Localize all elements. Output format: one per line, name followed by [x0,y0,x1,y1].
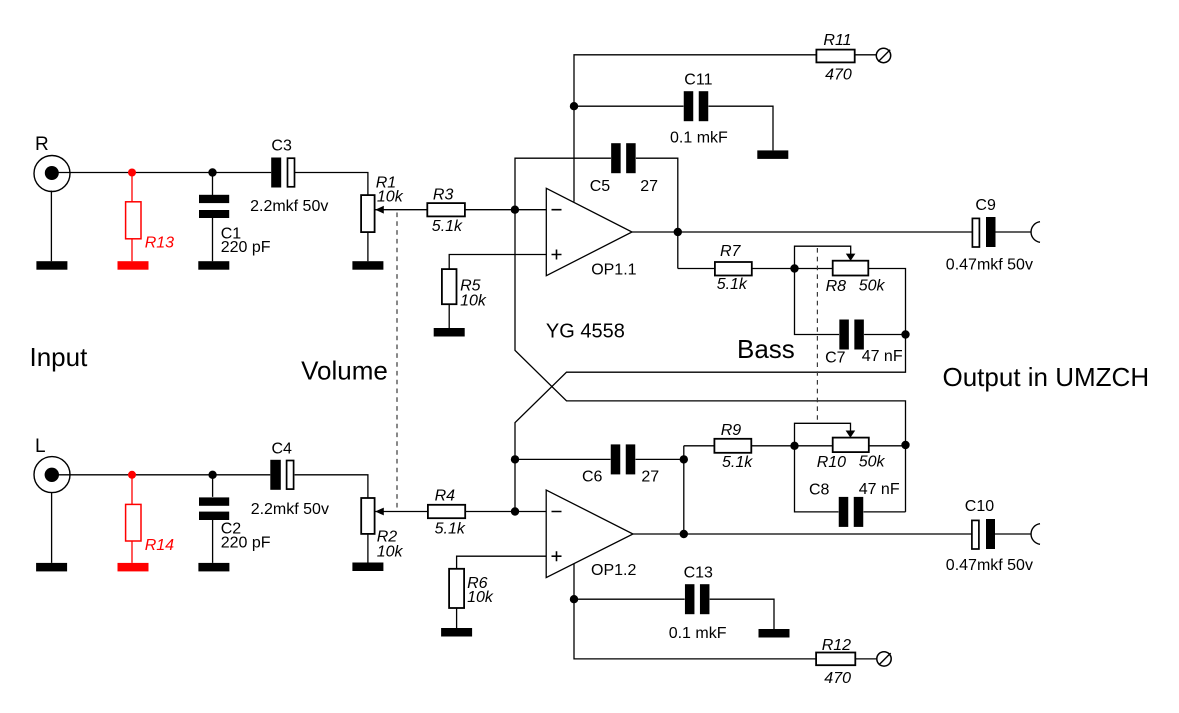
svg-text:C5: C5 [590,178,611,195]
svg-text:27: 27 [641,469,659,486]
svg-text:C9: C9 [975,197,996,214]
svg-text:10k: 10k [460,292,487,309]
svg-text:10k: 10k [467,589,494,606]
svg-text:0.47mkf 50v: 0.47mkf 50v [946,256,1033,273]
svg-text:R9: R9 [721,422,742,439]
svg-text:47 nF: 47 nF [859,481,900,498]
svg-text:C8: C8 [809,481,830,498]
svg-text:10k: 10k [377,543,404,560]
svg-text:5.1k: 5.1k [432,218,463,235]
svg-text:27: 27 [640,178,658,195]
svg-text:C13: C13 [684,565,713,582]
svg-text:0.1 mkF: 0.1 mkF [670,130,728,147]
svg-text:47 nF: 47 nF [862,348,903,365]
svg-text:C7: C7 [825,349,846,366]
svg-text:R7: R7 [720,243,742,260]
svg-text:C10: C10 [965,498,994,515]
svg-text:470: 470 [824,670,851,687]
svg-text:R11: R11 [823,32,851,49]
svg-text:5.1k: 5.1k [435,521,466,538]
svg-text:50k: 50k [859,453,886,470]
svg-text:L: L [35,436,46,457]
svg-text:OP1.2: OP1.2 [591,562,636,579]
svg-text:5.1k: 5.1k [717,276,748,293]
svg-text:0.47mkf 50v: 0.47mkf 50v [946,557,1033,574]
svg-text:R: R [35,134,49,155]
svg-text:220 pF: 220 pF [221,239,271,256]
svg-text:Bass: Bass [737,334,795,364]
svg-text:0.1 mkF: 0.1 mkF [669,625,727,642]
svg-text:C6: C6 [582,469,603,486]
svg-text:OP1.1: OP1.1 [591,262,636,279]
svg-text:R13: R13 [145,234,174,251]
svg-text:Input: Input [30,342,89,372]
svg-text:Output in UMZCH: Output in UMZCH [943,362,1150,392]
svg-text:2.2mkf 50v: 2.2mkf 50v [251,501,329,518]
svg-text:470: 470 [825,67,852,84]
svg-text:R4: R4 [435,487,456,504]
svg-text:C4: C4 [272,441,293,458]
svg-text:50k: 50k [859,277,886,294]
svg-text:5.1k: 5.1k [722,454,753,471]
svg-text:R8: R8 [826,278,847,295]
svg-text:R14: R14 [145,537,174,554]
svg-text:R10: R10 [817,454,846,471]
svg-text:R12: R12 [822,637,851,654]
svg-text:Volume: Volume [301,356,388,386]
svg-text:220 pF: 220 pF [221,534,271,551]
svg-text:2.2mkf 50v: 2.2mkf 50v [250,198,328,215]
svg-text:R3: R3 [433,187,454,204]
svg-text:10k: 10k [377,189,404,206]
svg-text:C11: C11 [684,71,712,88]
svg-text:YG 4558: YG 4558 [546,321,625,343]
svg-text:C3: C3 [271,138,292,155]
